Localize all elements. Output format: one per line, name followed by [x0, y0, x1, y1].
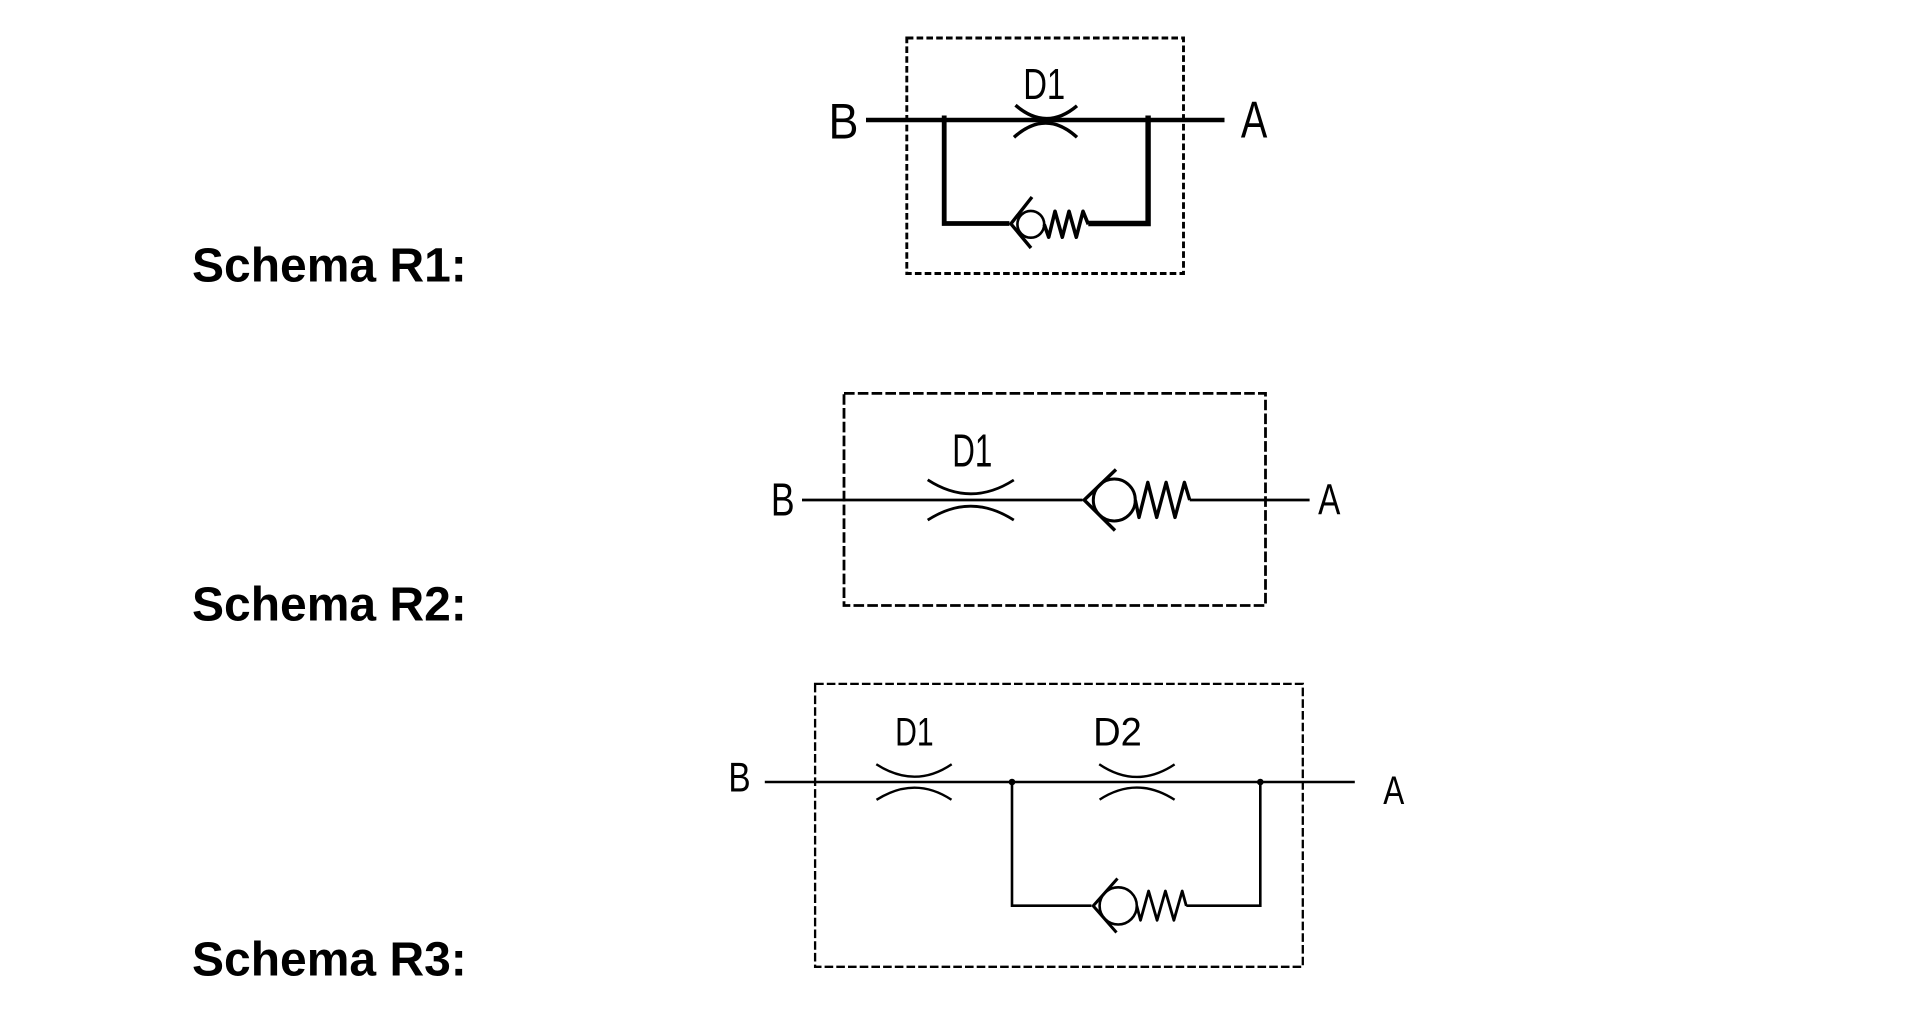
- svg-text:D2: D2: [1093, 711, 1142, 755]
- svg-text:D1: D1: [895, 710, 934, 754]
- svg-text:B: B: [728, 755, 750, 801]
- svg-text:A: A: [1241, 91, 1268, 149]
- svg-text:B: B: [829, 94, 859, 150]
- svg-text:B: B: [771, 474, 795, 526]
- svg-text:Schema R1:: Schema R1:: [192, 240, 467, 293]
- svg-text:D1: D1: [1023, 61, 1065, 110]
- svg-text:Schema R3:: Schema R3:: [192, 934, 467, 987]
- svg-text:Schema R2:: Schema R2:: [192, 578, 467, 631]
- svg-text:A: A: [1318, 476, 1340, 524]
- svg-text:D1: D1: [952, 425, 992, 476]
- svg-text:A: A: [1383, 769, 1404, 813]
